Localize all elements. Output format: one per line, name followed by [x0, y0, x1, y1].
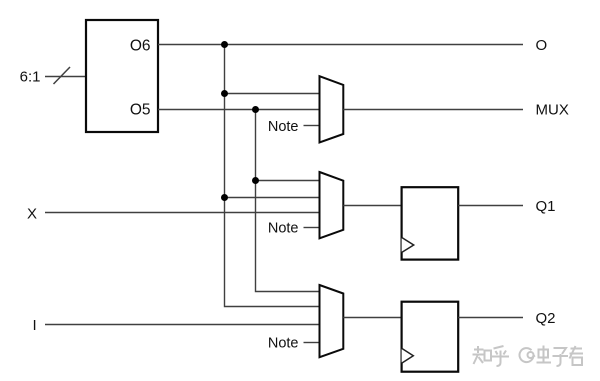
glyph 子 [553, 348, 569, 366]
glyph 乎 [492, 346, 509, 366]
wire branch to mux M2 middle input [225, 197, 320, 199]
svg-text:Q2: Q2 [536, 310, 556, 327]
svg-text:O6: O6 [130, 37, 151, 54]
svg-text:I: I [33, 317, 37, 334]
svg-text:O: O [536, 37, 548, 54]
junction dot mux M2 middle input [221, 194, 228, 201]
mux M2 [320, 172, 344, 238]
wire FF2 output Q2 [458, 317, 523, 319]
svg-text:Q1: Q1 [536, 198, 556, 215]
svg-text:MUX: MUX [536, 102, 569, 119]
glyph @ [520, 348, 535, 362]
svg-text:Note: Note [268, 220, 299, 236]
wire I input [45, 324, 320, 326]
watermark 知乎 @虫子君 (drawn glyphs, light gray) [473, 346, 584, 367]
glyph 知 [473, 346, 492, 364]
glyph 虫 [537, 346, 552, 363]
wire vertical from O5 [256, 110, 320, 292]
clock triangle FF2 [402, 348, 414, 363]
svg-text:X: X [27, 205, 37, 222]
wire branch to mux M2 top input [256, 180, 320, 182]
bus slash on 6:1 input [54, 67, 71, 84]
wire 6:1 input [45, 76, 86, 78]
wire note stub mux M2 [304, 227, 320, 229]
wire mux M3 output to FF2 [343, 317, 401, 319]
wire vertical from O6 [225, 45, 320, 307]
wire mux M1 output (MUX) [343, 109, 523, 111]
mux M1 [320, 76, 344, 142]
junction dot on O5 wire [252, 106, 259, 113]
wire note stub mux M3 [304, 342, 320, 344]
svg-text:O5: O5 [130, 102, 151, 119]
wire branch to mux M1 top input [225, 93, 320, 95]
wire O6 output [158, 44, 523, 46]
junction dot on O6 wire [221, 41, 228, 48]
LUT box U1 [86, 20, 158, 132]
wire O5 output [158, 109, 320, 111]
junction dot mux M2 top input [252, 177, 259, 184]
wire FF1 output Q1 [458, 205, 523, 207]
junction dot mux M1 top input [221, 90, 228, 97]
wire X input [45, 212, 320, 214]
wire note stub mux M1 [304, 125, 320, 127]
svg-text:Note: Note [268, 336, 299, 352]
svg-text:Note: Note [268, 119, 299, 135]
flip-flop FF2 [402, 302, 459, 372]
flip-flop FF1 [402, 187, 459, 259]
svg-text:6:1: 6:1 [20, 69, 41, 86]
mux M3 [320, 285, 344, 357]
clock triangle FF1 [402, 237, 414, 252]
glyph 君 [570, 346, 584, 365]
wire mux M2 output to FF1 [343, 205, 401, 207]
